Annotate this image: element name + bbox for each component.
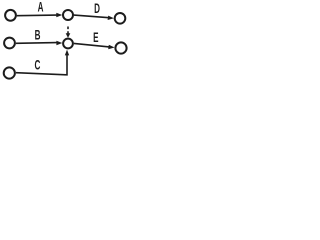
svg-text:A: A — [38, 0, 44, 15]
svg-text:B: B — [35, 29, 41, 44]
svg-text:E: E — [93, 31, 98, 46]
svg-text:C: C — [34, 59, 40, 74]
svg-text:D: D — [94, 2, 100, 17]
